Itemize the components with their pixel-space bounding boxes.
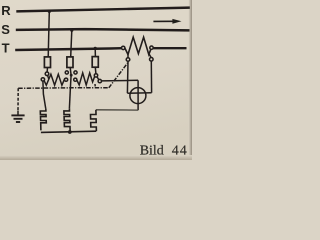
wire S drop (bus S to fuse F2) <box>71 30 72 57</box>
wire G down <box>150 61 152 93</box>
junction dot on T <box>94 47 97 50</box>
terminal C2 (left end resistor 2) <box>74 78 77 81</box>
ground dashed drop <box>17 88 19 110</box>
svg-text:Bild: Bild <box>140 143 164 158</box>
wire H2 through instrument <box>127 92 151 95</box>
bus line T (left segment) <box>15 48 121 50</box>
stub A to resistor <box>48 75 49 79</box>
mechanical link (dash-dot) horizontal <box>18 87 109 90</box>
resistor 1 zigzag <box>44 74 65 85</box>
heater comb 1 <box>40 108 46 130</box>
arrow head <box>172 19 181 24</box>
svg-text:T: T <box>2 41 10 56</box>
wire fuse F2 to node K <box>69 68 72 76</box>
junction dot on R <box>48 10 51 13</box>
terminal E (to instrument) <box>98 79 101 82</box>
T-line rheostat: left terminal <box>122 46 125 49</box>
stub D to E <box>97 77 99 80</box>
fuse F3 <box>92 57 98 68</box>
node dot on S drop <box>70 74 73 77</box>
arrow (direction of rotation) on S <box>153 20 174 22</box>
bus line S <box>16 29 190 30</box>
wire fuse F1 to slider A <box>46 68 48 73</box>
heater comb 2 <box>64 108 70 132</box>
stub below resistor 2 to link line <box>94 84 96 86</box>
bottom star wire <box>41 131 96 132</box>
ground stub <box>17 111 19 115</box>
svg-text:R: R <box>1 3 11 18</box>
slider contact B1 (phase S, left) <box>65 71 68 74</box>
slider contact B2 (phase S, right) <box>74 71 77 74</box>
bus line T (right segment) <box>153 47 186 49</box>
T-line rheostat: right terminal <box>150 46 153 49</box>
tap stub G <box>149 54 151 57</box>
bus line R <box>16 8 190 12</box>
wire T drop (bus T to fuse F3) <box>94 49 96 57</box>
T-line rheostat zigzag <box>125 37 151 54</box>
tap circle G <box>150 58 154 62</box>
wire F down <box>126 61 129 93</box>
ground bar 2 <box>14 118 23 120</box>
mechanical link (dash-dot) diagonal <box>109 63 128 88</box>
tap stub F <box>127 55 129 58</box>
terminal C1 (right end resistor 1) <box>65 78 68 81</box>
paper background <box>0 0 192 160</box>
wire fuse F3 to slider D <box>94 67 97 74</box>
wire node K down <box>69 75 72 87</box>
ground bar 1 <box>11 114 24 116</box>
fuse F2 <box>67 57 73 68</box>
slider contact A (phase R) <box>45 72 49 76</box>
slider contact D (phase T) <box>94 74 97 77</box>
ground bar 3 <box>16 121 20 123</box>
wire H3 to heater 3 <box>96 109 138 111</box>
resistor 2 zigzag <box>77 73 95 85</box>
junction dot on S <box>70 28 73 31</box>
wire B down to heater 1 <box>43 81 46 108</box>
fuse F1 <box>44 57 50 68</box>
wire corner down through instrument <box>137 80 139 110</box>
wire R drop (bus R to fuse F1) <box>48 11 49 57</box>
wire to heater E2 <box>69 88 70 109</box>
instrument circle <box>130 88 146 104</box>
svg-text:S: S <box>1 22 10 37</box>
tap circle F <box>126 58 130 62</box>
wire from E to corner <box>102 79 139 82</box>
svg-text:44: 44 <box>172 143 188 158</box>
terminal B (left end resistor 1) <box>41 78 44 81</box>
junction dot bottom <box>68 130 72 134</box>
heater comb 3 <box>91 110 97 131</box>
